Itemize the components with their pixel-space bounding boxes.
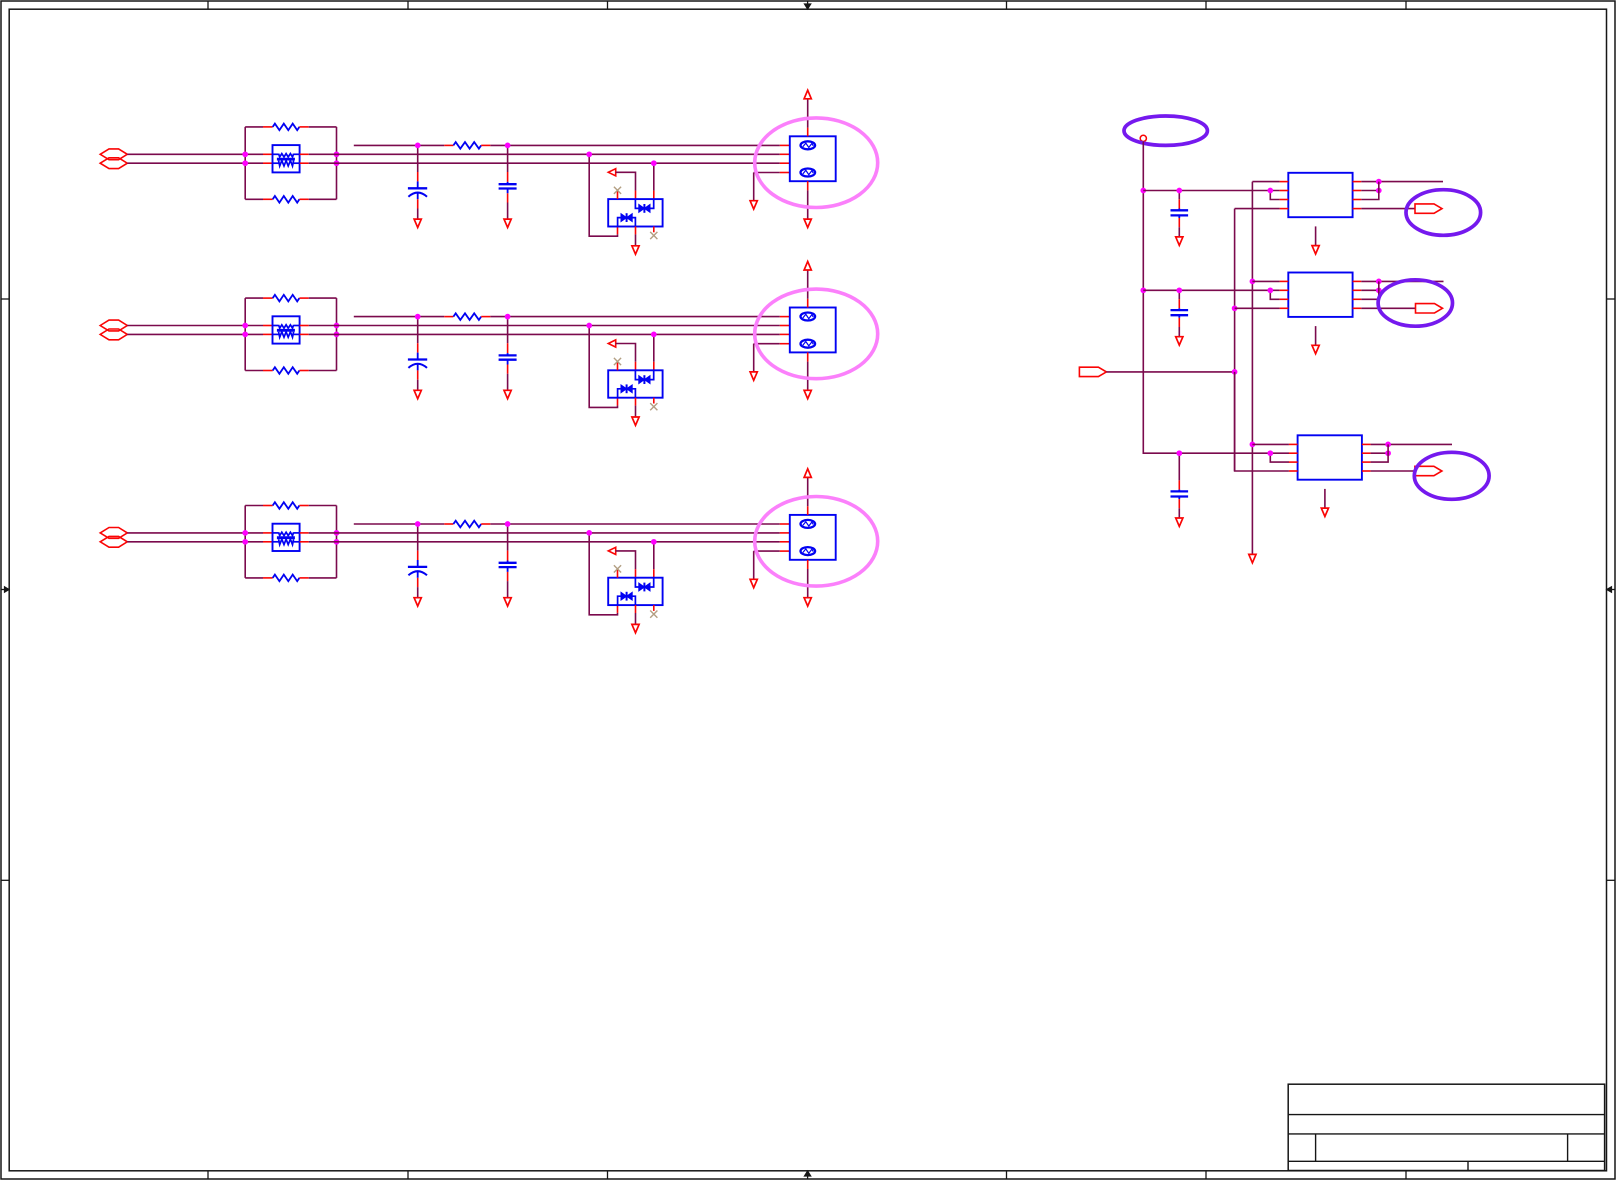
center mark right [1607, 589, 1616, 591]
arrow (net stub down) [1249, 554, 1256, 562]
junction dot C7 tap [1176, 188, 1182, 194]
wire CANH from connector to choke [127, 325, 263, 327]
wire transceiver pin4 [754, 172, 780, 174]
resistor R2 (bottom of loop) [245, 198, 263, 200]
connector J3 pin 2 (hexagon) [100, 536, 127, 547]
wire vertical bus A (pin1 chain) [1251, 182, 1253, 555]
resistor R4 (top of loop) [245, 297, 263, 299]
junction dot TVS CANL tap [651, 160, 657, 166]
junction dot C2 tap [505, 143, 511, 149]
power arrow (VCC) [804, 469, 811, 478]
net arrow (left-pointing port) [608, 169, 615, 176]
transceiver power pin wire [807, 506, 809, 515]
junction dot TVS CANH tap [586, 323, 592, 329]
wire VCC branch to module 2 [1143, 289, 1279, 291]
wire termination loop right side [336, 127, 338, 199]
TVS diode array D1 [608, 199, 662, 226]
wire CANL choke to transceiver [309, 162, 337, 164]
wire termination loop left side [244, 127, 246, 199]
highlight ellipse around transceiver [755, 497, 878, 587]
transceiver ground pin wire [807, 560, 809, 569]
connector J1 pin 1 (hexagon) [100, 149, 127, 160]
TVS top-left pin no-connect [617, 570, 619, 578]
TVS top-left pin no-connect [617, 363, 619, 371]
junction dot C9 tap [1176, 450, 1182, 456]
junction dot C6 tap [505, 521, 511, 527]
resistor R8 (bottom of loop) [245, 577, 263, 579]
wire arrow to TVS pin [616, 172, 636, 190]
wire transceiver pin4 [754, 343, 780, 345]
ground pin U5 [1315, 326, 1317, 345]
wire VCC main vertical bus [1143, 142, 1289, 454]
junction dot TVS CANL tap [651, 332, 657, 338]
zone ticks bottom [207, 1171, 209, 1179]
connector J2 pin 1 (hexagon) [100, 320, 127, 331]
wire split/reference branch [354, 144, 445, 146]
junction dot C5 tap [415, 521, 421, 527]
resistor R5 (bottom of loop) [245, 370, 263, 372]
wire U5 pin7 [1361, 289, 1379, 291]
input port (left) [1079, 367, 1106, 376]
net arrow (left-pointing port) [608, 547, 615, 554]
ground [632, 417, 639, 425]
junction dots at termination loop [242, 323, 248, 329]
junction dot [1376, 287, 1382, 293]
wire U6 pin6 jog [1371, 444, 1389, 462]
ground [804, 219, 811, 227]
highlight ellipse output 2 [1378, 280, 1452, 326]
wire U4 pin6 jog [1361, 182, 1379, 200]
wire VCC branch to module 1 [1143, 190, 1279, 192]
center mark bottom [807, 1171, 809, 1179]
center mark top [807, 1, 809, 9]
junction dot bus A module 3 [1250, 442, 1256, 448]
common-mode choke L2 [263, 325, 273, 327]
wire CANL from connector to choke [127, 162, 263, 164]
TVS bottom-right pin no-connect [653, 605, 655, 611]
wire input port to bus [1106, 371, 1234, 373]
TVS ground pin [635, 605, 637, 613]
wire arrow to TVS pin [616, 551, 636, 569]
ground [804, 598, 811, 606]
zone ticks right [1607, 298, 1616, 300]
redacted label (scribble) [801, 169, 816, 177]
wire CANH choke to transceiver [309, 532, 337, 534]
redacted label (scribble) [801, 313, 816, 321]
transceiver ground pin wire [807, 181, 809, 190]
connector J1 pin 2 (hexagon) [100, 158, 127, 169]
capacitor C9 [1178, 453, 1180, 480]
wire CANL from connector to choke [127, 333, 263, 335]
wire termination loop right side [336, 298, 338, 370]
capacitor C5 (polarized) [417, 524, 419, 551]
junction dot [1267, 287, 1273, 293]
resistor R7 (top of loop) [245, 505, 263, 507]
transceiver U2 [780, 316, 790, 318]
wire pin4 to ground [753, 551, 755, 579]
TVS diode array D2 [608, 370, 662, 397]
resistor R1 (top of loop) [245, 126, 263, 128]
wire termination loop left side [244, 298, 246, 370]
wire U6 pin7 [1371, 452, 1389, 454]
ground [1312, 345, 1319, 353]
center mark left [1, 589, 9, 591]
TVS diode array D3 [608, 578, 662, 605]
ground [1312, 246, 1319, 254]
resistor R6 (series) [444, 316, 453, 318]
junction dot TVS CANH tap [586, 530, 592, 536]
ground [750, 372, 757, 380]
wire module3 pin1 from bus A [1252, 443, 1289, 445]
junction dot C3 tap [415, 314, 421, 320]
highlight ellipse around transceiver [755, 289, 878, 379]
capacitor C8 [1178, 290, 1180, 299]
junction dot [1385, 442, 1391, 448]
wire module2 pin4 from bus B [1235, 307, 1280, 309]
output port [1416, 304, 1443, 313]
redacted label (scribble) [801, 340, 816, 348]
transceiver power pin wire [807, 299, 809, 308]
zone ticks left [1, 298, 9, 300]
ground [632, 246, 639, 254]
junction dot TVS CANH tap [586, 151, 592, 157]
wire CANL choke to transceiver [309, 541, 337, 543]
wire split/reference branch [354, 316, 445, 318]
transceiver U3 [780, 523, 790, 525]
transceiver U1 [780, 144, 790, 146]
connector J2 pin 2 (hexagon) [100, 329, 127, 340]
wire CANH from connector to choke [127, 153, 263, 155]
wire CANL to TVS [653, 334, 655, 361]
output port [1415, 204, 1442, 213]
wire CANH choke to transceiver [309, 153, 337, 155]
resistor R3 (series) [444, 144, 453, 146]
junction dot bus B module 2 [1232, 305, 1238, 311]
wire transceiver pin4 [754, 550, 780, 552]
wire U6 output top [1371, 443, 1452, 445]
wire U4 pin7 [1361, 190, 1379, 192]
ground pin U4 [1315, 226, 1317, 245]
wire CANH to TVS [589, 326, 617, 408]
wire U5 output to port [1361, 307, 1415, 309]
capacitor C3 (polarized) [417, 317, 419, 344]
wire module3 pin4 from bus B [1235, 372, 1289, 471]
capacitor C6 [507, 524, 509, 551]
common-mode choke L1 [263, 153, 273, 155]
junction dot bus B input port [1232, 369, 1238, 375]
highlight ellipse output 1 [1406, 190, 1481, 236]
transceiver ground pin wire [807, 352, 809, 361]
TVS top-left pin no-connect [617, 191, 619, 199]
wire module1 pin4 from bus B [1235, 208, 1280, 210]
ground pin U6 [1324, 489, 1326, 508]
wire arrow to TVS pin [616, 344, 636, 362]
net arrow (left-pointing port) [608, 340, 615, 347]
junction dot bus A module 2 [1250, 279, 1256, 285]
junction dot [1267, 450, 1273, 456]
zone ticks top [207, 1, 209, 9]
wire CANH to TVS [589, 154, 617, 236]
capacitor C2 [507, 145, 509, 172]
ground [632, 624, 639, 632]
wire module1 pin1 from bus A [1252, 181, 1279, 183]
wire termination loop right side [336, 506, 338, 578]
wire termination loop left side [244, 506, 246, 578]
junction dot VCC bus 1 [1140, 188, 1146, 194]
wire pin4 to ground [753, 173, 755, 201]
wire jog to module 3 pin 3 [1270, 453, 1289, 462]
TVS bottom-right pin no-connect [653, 227, 655, 233]
TVS ground pin [635, 398, 637, 406]
wire CANL from connector to choke [127, 541, 263, 543]
highlight ellipse around transceiver [755, 118, 878, 208]
common-mode choke L3 [263, 532, 273, 534]
transceiver power pin wire [807, 128, 809, 137]
connector J3 pin 1 (hexagon) [100, 528, 127, 539]
TVS bottom-right pin no-connect [653, 398, 655, 404]
power module U5 [1288, 273, 1352, 317]
power arrow (VCC) [804, 90, 811, 99]
wire U5 output top [1361, 280, 1443, 282]
junction dot [1376, 279, 1382, 285]
output port [1415, 466, 1442, 475]
highlight ellipse around power marker [1124, 116, 1207, 145]
highlight ellipse output 3 [1414, 452, 1489, 499]
resistor R9 (series) [444, 523, 453, 525]
wire U4 output to port [1361, 208, 1415, 210]
wire CANL to TVS [653, 163, 655, 190]
wire CANL choke to transceiver [309, 333, 337, 335]
junction dot [1376, 188, 1382, 194]
power module U6 [1298, 435, 1362, 479]
redacted label (scribble) [801, 141, 816, 149]
junction dots at termination loop [242, 530, 248, 536]
junction dot [1267, 188, 1273, 194]
wire CANH choke to transceiver [309, 325, 337, 327]
capacitor C7 [1178, 191, 1180, 200]
ground [750, 201, 757, 209]
junction dot C4 tap [505, 314, 511, 320]
wire jog to module 2 pin 3 [1270, 290, 1279, 299]
wire CANH to TVS [589, 533, 617, 615]
wire CANH from connector to choke [127, 532, 263, 534]
wire vertical bus B (pin4 chain) [1234, 209, 1236, 471]
wire split/reference branch [354, 523, 445, 525]
capacitor C4 [507, 317, 509, 344]
title block [1288, 1084, 1604, 1170]
TVS ground pin [635, 227, 637, 235]
ground [804, 390, 811, 398]
wire jog to module 1 pin 3 [1270, 191, 1279, 200]
junction dot VCC bus 2 [1140, 287, 1146, 293]
redacted label (scribble) [801, 520, 816, 528]
wire U6 output to port [1371, 470, 1415, 472]
junction dot [1376, 179, 1382, 185]
power net marker (circle) [1140, 135, 1146, 141]
junction dots at termination loop [242, 151, 248, 157]
junction dot [1385, 450, 1391, 456]
wire pin4 to ground [753, 344, 755, 372]
wire module2 pin1 from bus A [1252, 280, 1279, 282]
power module U4 [1288, 173, 1352, 217]
wire U4 output top [1361, 181, 1443, 183]
wire U5 pin6 jog [1361, 281, 1379, 299]
junction dot C8 tap [1176, 287, 1182, 293]
ground [750, 579, 757, 587]
ground [1321, 508, 1328, 516]
wire CANL to TVS [653, 542, 655, 569]
junction dot TVS CANL tap [651, 539, 657, 545]
redacted label (scribble) [801, 547, 816, 555]
junction dot C1 tap [415, 143, 421, 149]
capacitor C1 (polarized) [417, 145, 419, 172]
power arrow (VCC) [804, 261, 811, 270]
